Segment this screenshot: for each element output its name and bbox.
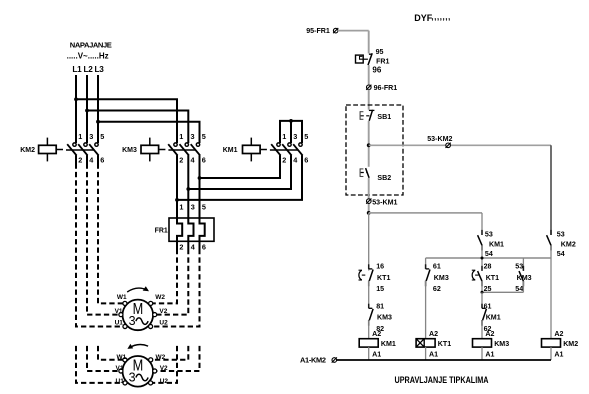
svg-text:KT1: KT1 xyxy=(377,274,390,282)
svg-text:KM1: KM1 xyxy=(489,240,504,248)
svg-text:KT1: KT1 xyxy=(438,340,451,348)
svg-text:NAPAJANJE: NAPAJANJE xyxy=(70,41,112,50)
svg-text:1: 1 xyxy=(282,132,286,141)
svg-text:KT1: KT1 xyxy=(486,274,499,282)
svg-text:61: 61 xyxy=(484,302,492,310)
svg-text:3: 3 xyxy=(129,314,136,328)
svg-text:53: 53 xyxy=(515,262,523,270)
svg-text:81: 81 xyxy=(376,302,384,310)
svg-text:,,,,,,,: ,,,,,,, xyxy=(431,12,450,22)
svg-text:U1: U1 xyxy=(116,378,125,385)
svg-text:54: 54 xyxy=(485,250,493,258)
svg-text:U2: U2 xyxy=(159,319,168,326)
svg-text:2: 2 xyxy=(78,155,82,164)
svg-text:28: 28 xyxy=(484,262,492,270)
svg-text:1: 1 xyxy=(179,132,183,141)
svg-text:KM3: KM3 xyxy=(377,314,392,322)
svg-text:A1: A1 xyxy=(485,350,494,358)
svg-text:KM3: KM3 xyxy=(122,147,137,154)
svg-text:W2: W2 xyxy=(155,294,165,301)
svg-text:54: 54 xyxy=(557,250,565,258)
svg-text:KM2: KM2 xyxy=(561,240,576,248)
svg-text:53: 53 xyxy=(557,231,565,239)
svg-text:6: 6 xyxy=(100,155,104,164)
svg-text:3: 3 xyxy=(89,132,93,141)
svg-text:25: 25 xyxy=(484,285,492,293)
svg-text:5: 5 xyxy=(100,132,104,141)
svg-text:A2: A2 xyxy=(485,330,494,338)
svg-text:15: 15 xyxy=(376,285,384,293)
svg-text:A1: A1 xyxy=(554,350,563,358)
svg-text:U1: U1 xyxy=(115,319,124,326)
svg-text:SB1: SB1 xyxy=(377,113,391,121)
svg-text:A2: A2 xyxy=(372,330,381,338)
svg-text:KM3: KM3 xyxy=(517,274,532,282)
svg-text:5: 5 xyxy=(304,132,308,141)
svg-text:KM1: KM1 xyxy=(223,147,238,154)
svg-text:3: 3 xyxy=(293,132,297,141)
svg-text:1: 1 xyxy=(78,132,82,141)
svg-text:2: 2 xyxy=(179,242,183,251)
svg-text:54: 54 xyxy=(515,285,523,293)
svg-text:2: 2 xyxy=(282,155,286,164)
svg-text:53: 53 xyxy=(485,231,493,239)
svg-text:96-FR1: 96-FR1 xyxy=(374,84,398,92)
svg-text:DYF: DYF xyxy=(414,13,433,23)
svg-text:KM3: KM3 xyxy=(494,340,509,348)
svg-text:W1: W1 xyxy=(117,294,127,301)
svg-text:53-KM1: 53-KM1 xyxy=(372,198,397,206)
svg-text:3: 3 xyxy=(191,203,195,212)
svg-text:FR1: FR1 xyxy=(376,58,389,66)
svg-text:KM1: KM1 xyxy=(486,314,501,322)
svg-text:3: 3 xyxy=(129,371,136,385)
svg-text:53-KM2: 53-KM2 xyxy=(427,135,452,143)
svg-text:A2: A2 xyxy=(429,330,438,338)
svg-text:62: 62 xyxy=(433,285,441,293)
svg-text:SB2: SB2 xyxy=(377,174,391,182)
svg-text:A1-KM2: A1-KM2 xyxy=(300,355,326,364)
svg-text:A1: A1 xyxy=(372,350,381,358)
svg-text:A1: A1 xyxy=(429,350,438,358)
svg-text:5: 5 xyxy=(202,132,206,141)
svg-text:6: 6 xyxy=(202,155,206,164)
svg-text:61: 61 xyxy=(433,262,441,270)
svg-text:L1 L2 L3: L1 L2 L3 xyxy=(72,65,104,74)
svg-text:96: 96 xyxy=(372,65,381,74)
svg-text:.....V~.....Hz: .....V~.....Hz xyxy=(67,52,109,61)
svg-text:6: 6 xyxy=(202,242,206,251)
svg-text:1: 1 xyxy=(179,203,183,212)
svg-text:KM1: KM1 xyxy=(381,340,396,348)
svg-text:5: 5 xyxy=(202,203,206,212)
svg-text:KM3: KM3 xyxy=(434,274,449,282)
svg-text:UPRAVLJANJE TIPKALIMA: UPRAVLJANJE TIPKALIMA xyxy=(395,375,489,385)
svg-text:6: 6 xyxy=(304,155,308,164)
svg-text:KM2: KM2 xyxy=(20,147,35,154)
svg-text:A2: A2 xyxy=(554,330,563,338)
svg-text:FR1: FR1 xyxy=(155,227,168,234)
svg-text:95: 95 xyxy=(376,48,384,56)
svg-text:16: 16 xyxy=(376,262,384,270)
svg-text:KM2: KM2 xyxy=(563,340,578,348)
svg-text:2: 2 xyxy=(179,155,183,164)
svg-text:U2: U2 xyxy=(160,378,169,385)
svg-text:95-FR1: 95-FR1 xyxy=(306,27,330,35)
svg-text:3: 3 xyxy=(191,132,195,141)
